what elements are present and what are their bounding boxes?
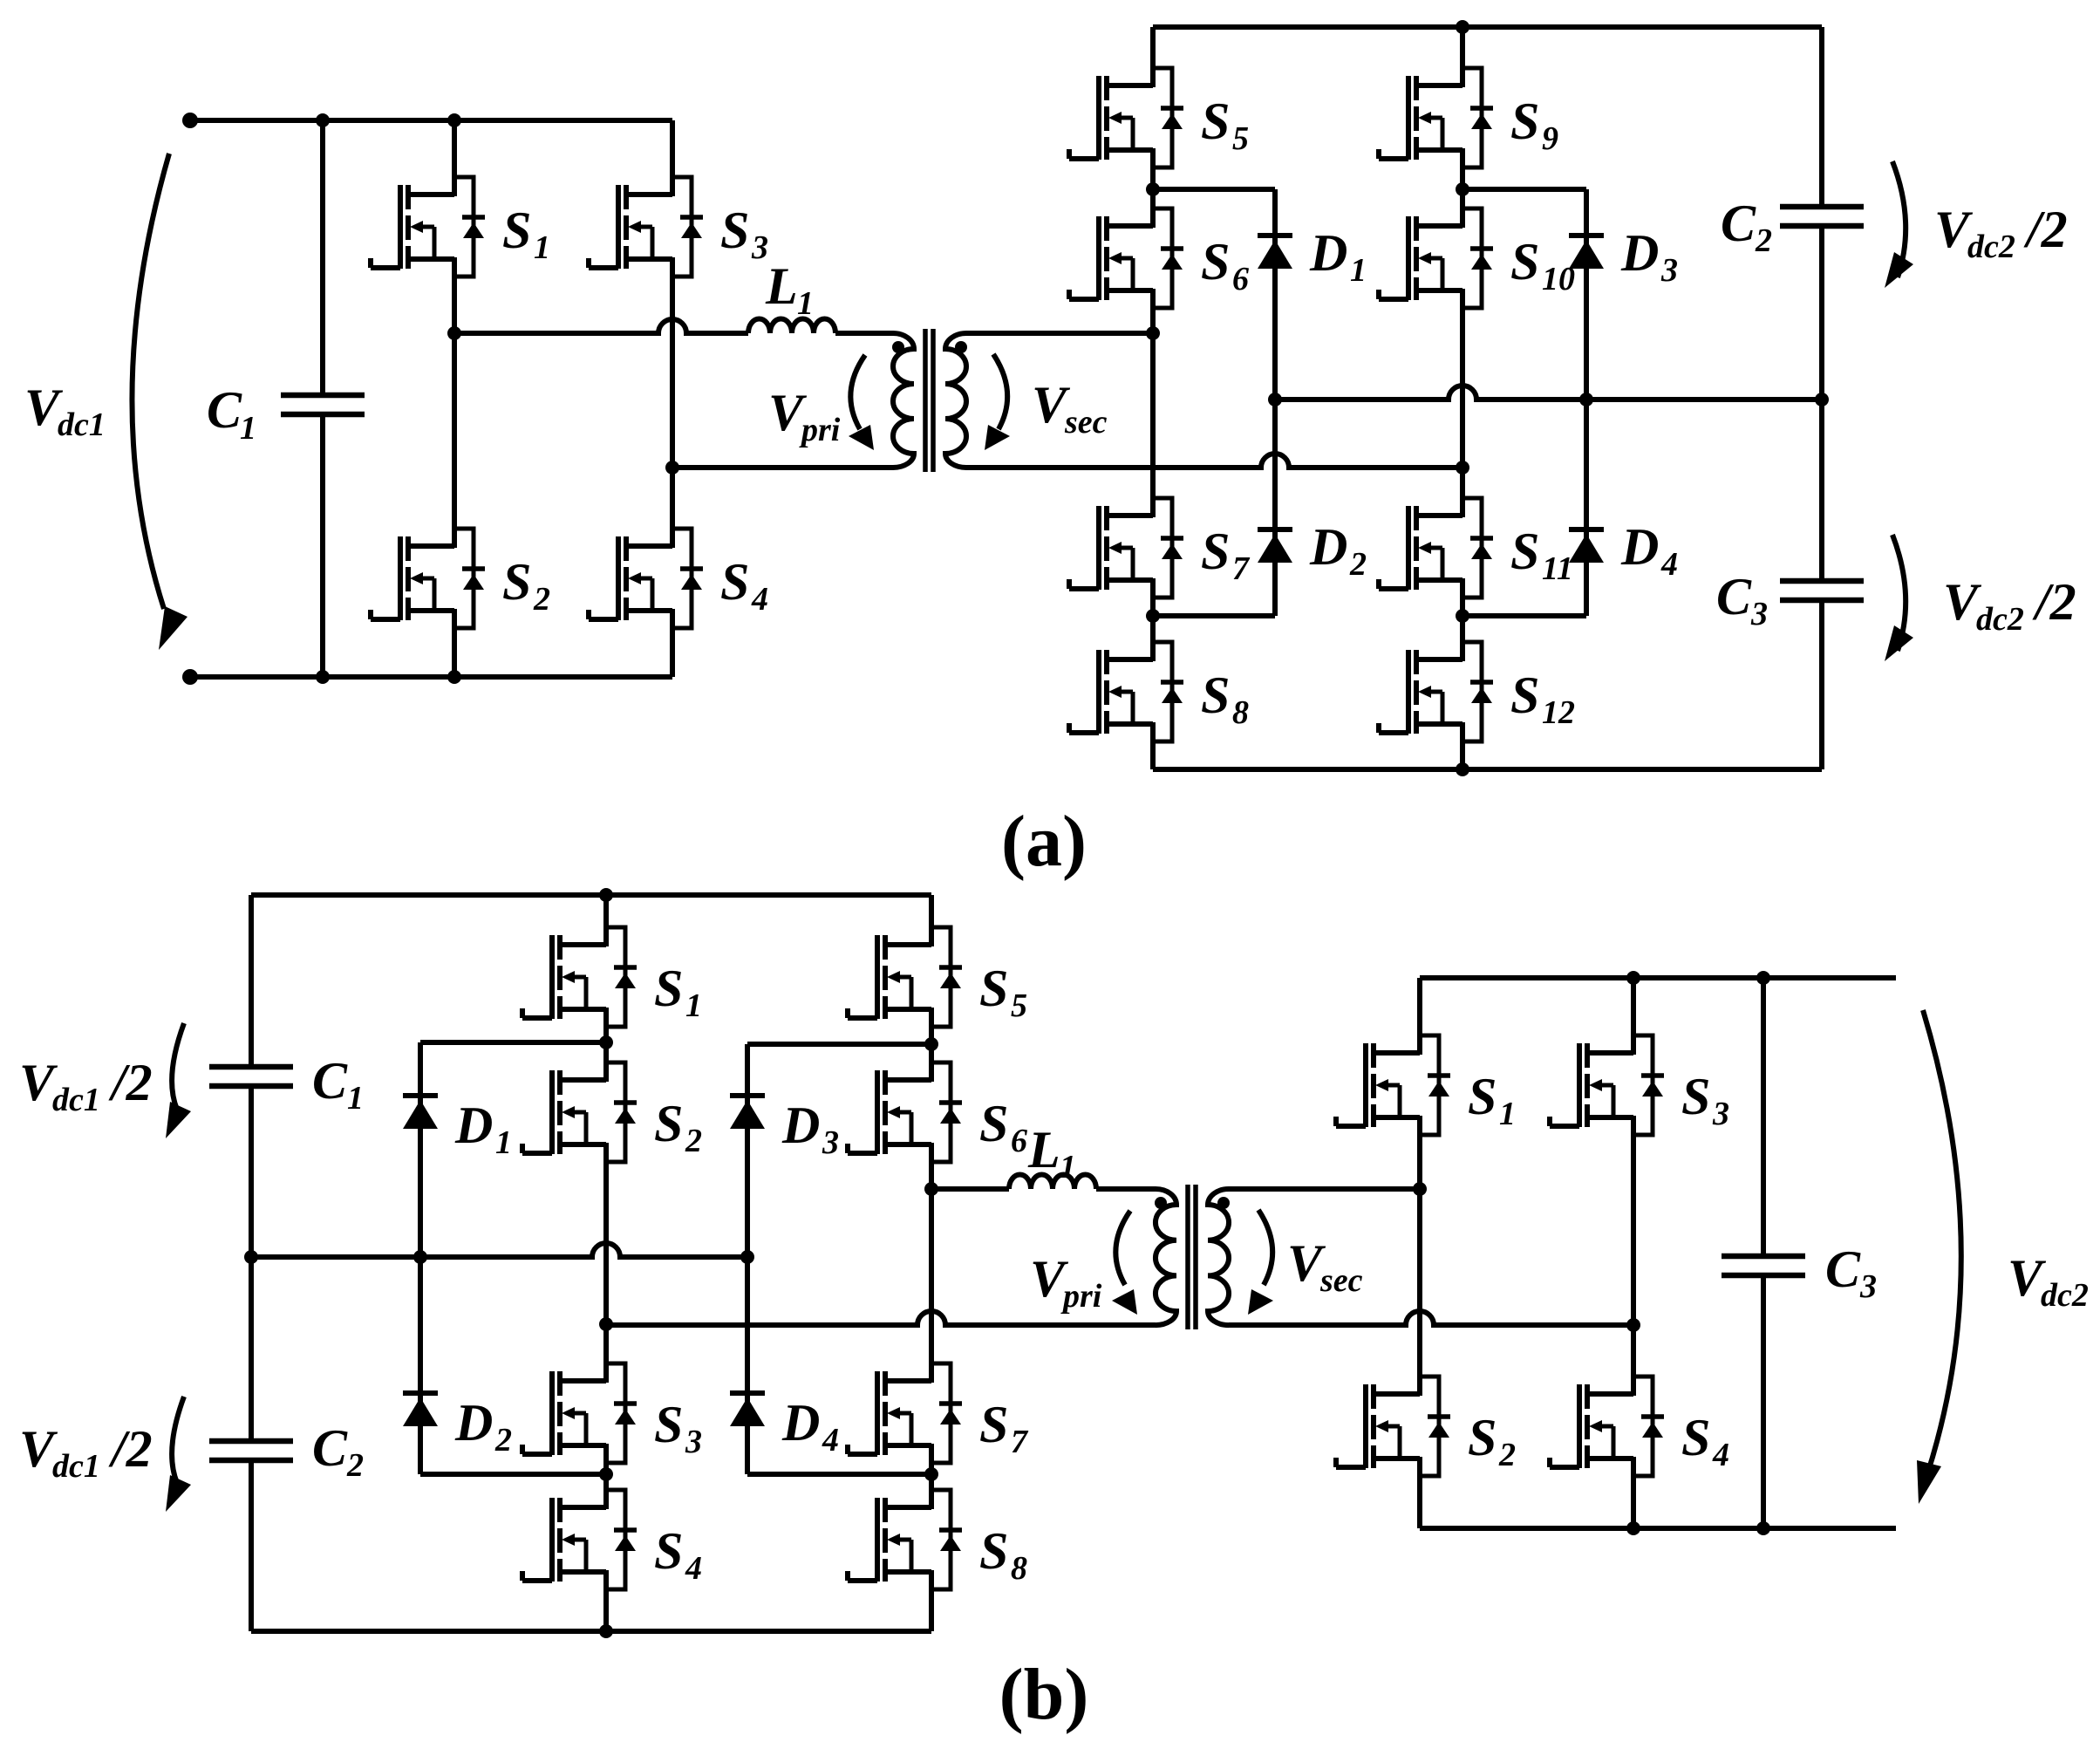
wire secondary top to bridge (b) — [1229, 1186, 1420, 1192]
svg-text:S: S — [1681, 1409, 1710, 1466]
svg-text:3: 3 — [1660, 252, 1678, 289]
svg-text:/2: /2 — [2032, 573, 2076, 631]
wire S8 source (a) — [1150, 741, 1156, 769]
svg-text:3: 3 — [822, 1124, 839, 1161]
svg-text:8: 8 — [1232, 694, 1249, 731]
wire S1-S2 junction (b) — [603, 1027, 609, 1062]
node secondary top junction (b) — [1413, 1182, 1427, 1196]
svg-text:12: 12 — [1542, 694, 1575, 731]
svg-text:L: L — [1027, 1121, 1060, 1179]
svg-text:S: S — [1510, 233, 1539, 290]
svg-text:2: 2 — [1349, 546, 1367, 583]
wire node A to L1 with crossover hump (a) — [454, 319, 748, 333]
node leg A midpoint (a) — [1146, 326, 1160, 340]
svg-text:D: D — [454, 1394, 493, 1452]
svg-text:2: 2 — [494, 1422, 512, 1459]
wire S1 drain (b) — [603, 895, 609, 927]
svg-text:S: S — [654, 960, 683, 1017]
wire L1 node to inductor (b) — [931, 1186, 1009, 1192]
primary polarity dot (b) — [1155, 1197, 1167, 1209]
node top rail leg1 (b) — [599, 888, 613, 902]
wire S3 drain right (b) — [1631, 978, 1636, 1035]
svg-text:D: D — [454, 1097, 493, 1154]
wire C3 leads (a) — [1819, 400, 1824, 580]
svg-text:/2: /2 — [108, 1420, 153, 1478]
svg-text:sec: sec — [1064, 404, 1108, 441]
svg-text:1: 1 — [685, 987, 702, 1024]
voltage arrow Vsec (a) — [993, 354, 1007, 429]
svg-text:D: D — [781, 1394, 820, 1452]
svg-text:2: 2 — [533, 581, 550, 618]
svg-text:4: 4 — [685, 1550, 702, 1587]
svg-text:(a): (a) — [1001, 801, 1087, 882]
svg-text:C: C — [207, 381, 242, 439]
svg-text:D: D — [1309, 518, 1347, 576]
svg-text:D: D — [1620, 224, 1659, 282]
svg-text:dc2: dc2 — [2041, 1277, 2089, 1314]
voltage arrow Vpri (b) — [1115, 1211, 1130, 1285]
wire neutral mid rail with hump (b) — [251, 1243, 747, 1257]
wire S1 drain (a) — [452, 120, 457, 177]
wire secondary top to leg A (a) — [966, 331, 1153, 336]
wire D2 bottom jog (a) — [1153, 613, 1275, 618]
node bottom rail leg B (a) — [1456, 762, 1469, 776]
wire D1-D2 branch (b) — [418, 1042, 423, 1474]
node mid rail D1-D2 (b) — [413, 1250, 427, 1264]
node mid rail D3-D4 (b) — [740, 1250, 754, 1264]
svg-text:dc1: dc1 — [52, 1448, 100, 1485]
transistor S7 (b) — [848, 1363, 962, 1463]
svg-text:S: S — [1468, 1409, 1497, 1466]
node L1 junction (b) — [924, 1182, 938, 1196]
diode D4 (b) — [730, 1393, 765, 1426]
svg-text:S: S — [654, 1396, 683, 1453]
wire C2 leads (a) — [1819, 27, 1824, 207]
svg-text:D: D — [1309, 224, 1347, 282]
wire S5-S6 junction (a) — [1150, 167, 1156, 208]
node S3-S4 junction (b) — [599, 1467, 613, 1481]
node mid rail left (b) — [244, 1250, 258, 1264]
transistor S2 (b) — [522, 1062, 637, 1162]
svg-text:sec: sec — [1319, 1262, 1363, 1299]
svg-text:pri: pri — [799, 412, 841, 448]
svg-text:3: 3 — [1712, 1096, 1729, 1132]
svg-text:C: C — [1825, 1240, 1861, 1298]
svg-text:dc1: dc1 — [52, 1082, 100, 1118]
wire bottom rail (b) — [251, 1629, 931, 1634]
node S1 drain rail (a) — [447, 113, 461, 127]
transistor S2 right (b) — [1336, 1377, 1450, 1476]
svg-text:C: C — [1721, 195, 1756, 252]
svg-text:S: S — [654, 1522, 683, 1580]
voltage arrow Vdc2 (b) — [1923, 1010, 1961, 1474]
node S5-S6 junction (a) — [1146, 182, 1160, 196]
capacitor C2 (b) — [209, 1441, 293, 1460]
svg-text:/2: /2 — [2023, 201, 2068, 258]
node S9-S10 junction (a) — [1456, 182, 1469, 196]
transistor S1 right (b) — [1336, 1035, 1450, 1135]
wire S2 source to AC node (b) — [603, 1162, 609, 1363]
svg-text:1: 1 — [495, 1124, 512, 1161]
wire S6 source to midpoint (a) — [1150, 308, 1156, 333]
wire S5 drain (a) — [1150, 27, 1156, 68]
svg-text:4: 4 — [1660, 546, 1678, 583]
svg-text:S: S — [654, 1095, 683, 1152]
node C1 top (a) — [316, 113, 330, 127]
diode D3 (a) — [1569, 236, 1604, 269]
transistor S4 (b) — [522, 1490, 637, 1589]
terminal dot top-left (a) — [182, 113, 198, 128]
svg-text:S: S — [720, 553, 749, 611]
voltage arrow Vdc2/2 bottom (a) — [1892, 535, 1906, 651]
terminal dot bottom-left (a) — [182, 669, 198, 685]
transistor S3 right (b) — [1550, 1035, 1664, 1135]
secondary polarity dot (a) — [955, 341, 967, 353]
svg-text:S: S — [1468, 1068, 1497, 1125]
wire S3-S4 junction (b) — [603, 1463, 609, 1490]
wire S2 drain (a) — [452, 333, 457, 529]
svg-text:6: 6 — [1011, 1123, 1027, 1159]
transistor S5 (b) — [848, 927, 962, 1027]
node leg B midpoint (a) — [1456, 461, 1469, 475]
svg-text:9: 9 — [1542, 120, 1558, 157]
wire AC node to primary bottom with hump (b) — [606, 1311, 1156, 1325]
wire D3 top jog (a) — [1462, 187, 1586, 192]
diode D3 (b) — [730, 1096, 765, 1129]
node neutral D1-D2 (a) — [1268, 393, 1282, 407]
svg-text:4: 4 — [751, 581, 768, 618]
transistor S5 (a) — [1069, 68, 1183, 167]
svg-text:3: 3 — [685, 1424, 702, 1460]
svg-text:1: 1 — [797, 285, 814, 322]
capacitor C1 (a) — [281, 395, 365, 414]
wire S7-S8 junction (a) — [1150, 598, 1156, 642]
svg-text:S: S — [502, 202, 531, 259]
wire L1 node to S7 (b) — [929, 1189, 934, 1363]
svg-text:2: 2 — [1498, 1437, 1516, 1473]
wire secondary bottom to bridge with hump (b) — [1229, 1311, 1633, 1325]
diode D1 (a) — [1258, 236, 1292, 269]
primary polarity dot (a) — [892, 341, 904, 353]
svg-text:S: S — [1201, 92, 1230, 150]
transistor S10 (a) — [1379, 208, 1493, 308]
voltage arrow Vpri (a) — [850, 355, 865, 429]
svg-text:1: 1 — [1350, 252, 1367, 289]
wire S3 source to node B (a) — [670, 277, 675, 468]
transistor S8 (a) — [1069, 642, 1183, 741]
wire S6 source to L1 node (b) — [929, 1162, 934, 1189]
node neutral D3-D4 (a) — [1579, 393, 1593, 407]
transformer core (b) — [1185, 1185, 1190, 1329]
svg-text:L: L — [765, 257, 798, 315]
capacitor C1 (b) — [209, 1067, 293, 1086]
svg-text:S: S — [1510, 523, 1539, 580]
svg-text:2: 2 — [346, 1447, 364, 1484]
wire leg A midpoint to S7 (a) — [1150, 333, 1156, 498]
transistor S2 (a) — [371, 529, 485, 628]
wire S3-S4 leg right (b) — [1631, 1135, 1636, 1377]
voltage arrow Vdc2/2 top (a) — [1892, 161, 1906, 277]
transistor S3 (b) — [522, 1363, 637, 1463]
wire S1 source to node A (a) — [452, 277, 457, 333]
svg-text:/2: /2 — [108, 1054, 153, 1111]
wire top rail (b) — [251, 892, 931, 898]
svg-text:6: 6 — [1232, 261, 1249, 297]
svg-text:1: 1 — [1060, 1149, 1076, 1185]
transistor S3 (a) — [589, 177, 703, 277]
transformer primary winding (b) — [1156, 1189, 1176, 1325]
svg-text:(b): (b) — [999, 1654, 1089, 1735]
svg-text:C: C — [312, 1419, 348, 1477]
node S7-S8 junction (a) — [1146, 609, 1160, 623]
wire S7-S8 junction (b) — [929, 1463, 934, 1490]
diode D2 (a) — [1258, 529, 1292, 563]
wire D3-D4 branch (b) — [745, 1044, 750, 1474]
node bottom rail leg2 (b) — [1626, 1521, 1640, 1535]
node S7-S8 junction (b) — [924, 1467, 938, 1481]
svg-text:S: S — [1510, 92, 1539, 150]
capacitor C2 (a) — [1780, 207, 1864, 226]
wire S2 source right (b) — [1417, 1476, 1422, 1528]
svg-text:S: S — [720, 202, 749, 259]
transistor S4 right (b) — [1550, 1377, 1664, 1476]
svg-text:D: D — [1620, 518, 1659, 576]
svg-text:1: 1 — [1499, 1096, 1516, 1132]
svg-text:1: 1 — [347, 1080, 364, 1117]
wire S5-S6 junction (b) — [929, 1027, 934, 1062]
wire bottom rail right section (a) — [1153, 767, 1822, 772]
voltage arrow Vdc1/2 bottom (b) — [172, 1397, 184, 1483]
svg-text:1: 1 — [240, 410, 256, 447]
svg-text:S: S — [979, 1396, 1008, 1453]
wire S9 drain (a) — [1460, 27, 1465, 68]
wire D4 bottom jog (a) — [1462, 613, 1586, 618]
svg-text:C: C — [312, 1052, 348, 1110]
svg-text:7: 7 — [1011, 1424, 1029, 1460]
wire D1 branch (a) — [1272, 189, 1278, 400]
wire bottom rail left bridge (a) — [190, 674, 672, 680]
svg-text:S: S — [1510, 666, 1539, 724]
wire D1 top jog (b) — [420, 1040, 606, 1045]
capacitor C3 (b) — [1722, 1256, 1805, 1275]
wire neutral rail with hump (a) — [1275, 386, 1822, 400]
node C1 bottom (a) — [316, 670, 330, 684]
svg-text:11: 11 — [1542, 550, 1573, 587]
svg-text:S: S — [979, 1522, 1008, 1580]
capacitor C3 (a) — [1780, 581, 1864, 600]
node S11-S12 junction (a) — [1456, 609, 1469, 623]
node A S1-S2 junction (a) — [447, 326, 461, 340]
svg-text:3: 3 — [1859, 1268, 1877, 1305]
wire S12 source (a) — [1460, 741, 1465, 769]
wire left rail and C1 C2 leads (b) — [249, 895, 254, 1067]
wire S5 drain (b) — [929, 895, 934, 927]
node bottom rail C3 (b) — [1756, 1521, 1770, 1535]
wire S4 source (b) — [603, 1589, 609, 1631]
voltage arrow Vdc1 (a) — [132, 154, 169, 609]
transistor S1 (b) — [522, 927, 637, 1027]
transformer primary winding (a) — [893, 333, 914, 468]
node neutral C2-C3 (a) — [1815, 393, 1829, 407]
wire D4 branch (a) — [1584, 400, 1589, 616]
inductor L1 (a) — [748, 319, 835, 334]
svg-text:7: 7 — [1232, 550, 1251, 587]
svg-text:2: 2 — [685, 1123, 702, 1159]
node S2 source rail (a) — [447, 670, 461, 684]
svg-text:4: 4 — [822, 1422, 839, 1459]
node top rail C3 (b) — [1756, 971, 1770, 985]
wire top rail right bridge (b) — [1420, 975, 1896, 980]
node S5-S6 junction (b) — [924, 1037, 938, 1051]
transistor S4 (a) — [589, 529, 703, 628]
wire S9-S10 junction (a) — [1460, 167, 1465, 208]
wire bottom rail right bridge (b) — [1420, 1526, 1896, 1531]
svg-text:1: 1 — [534, 229, 550, 266]
node secondary bottom junction (b) — [1626, 1318, 1640, 1332]
wire D4 bottom jog (b) — [747, 1472, 931, 1477]
svg-text:10: 10 — [1542, 261, 1575, 297]
node bottom rail leg1 (b) — [599, 1624, 613, 1638]
node B S3-S4 junction (a) — [665, 461, 679, 475]
svg-text:8: 8 — [1011, 1550, 1027, 1587]
wire S4 source right (b) — [1631, 1476, 1636, 1528]
svg-text:S: S — [1201, 666, 1230, 724]
transistor S12 (a) — [1379, 642, 1493, 741]
svg-text:S: S — [502, 553, 531, 611]
node top rail leg2 (b) — [1626, 971, 1640, 985]
voltage arrow Vsec (b) — [1258, 1210, 1272, 1285]
wire top rail right section (a) — [1153, 24, 1822, 30]
transistor S11 (a) — [1379, 498, 1493, 598]
wire secondary bottom to leg B with hump (a) — [966, 454, 1462, 468]
wire S4 source (a) — [670, 628, 675, 677]
wire S3 drain (a) — [670, 120, 675, 177]
svg-text:S: S — [1681, 1068, 1710, 1125]
svg-text:pri: pri — [1060, 1278, 1102, 1315]
node leg1 AC output (b) — [599, 1317, 613, 1331]
wire C3 leads (b) — [1761, 978, 1766, 1256]
svg-text:5: 5 — [1011, 987, 1027, 1024]
wire D1 top jog (a) — [1153, 187, 1275, 192]
transistor S1 (a) — [371, 177, 485, 277]
wire node B to primary bottom (a) — [672, 465, 893, 470]
diode D4 (a) — [1569, 529, 1604, 563]
svg-text:S: S — [1201, 233, 1230, 290]
wire D3 top jog (b) — [747, 1042, 931, 1047]
diode D2 (b) — [403, 1393, 438, 1426]
svg-text:dc2: dc2 — [1967, 229, 2015, 265]
transformer secondary winding (b) — [1208, 1189, 1229, 1325]
inductor L1 (b) — [1009, 1175, 1096, 1190]
wire S11-S12 junction (a) — [1460, 598, 1465, 642]
diode D1 (b) — [403, 1096, 438, 1129]
wire D2 branch (a) — [1272, 400, 1278, 616]
transformer core (a) — [923, 329, 928, 472]
wire S4 drain (a) — [670, 468, 675, 529]
transistor S7 (a) — [1069, 498, 1183, 598]
svg-text:5: 5 — [1232, 120, 1249, 157]
svg-text:dc2: dc2 — [1976, 601, 2024, 638]
svg-text:S: S — [979, 1095, 1008, 1152]
wire top rail left bridge (a) — [190, 118, 672, 123]
wire S10 source to leg B midpoint (a) — [1460, 308, 1465, 498]
svg-text:4: 4 — [1712, 1437, 1729, 1473]
transistor S6 (a) — [1069, 208, 1183, 308]
wire D3 branch (a) — [1584, 189, 1589, 400]
node top rail leg B (a) — [1456, 20, 1469, 34]
voltage arrow Vdc1/2 top (b) — [172, 1023, 184, 1110]
wire L1 to primary (b) — [1096, 1186, 1156, 1192]
svg-text:C: C — [1716, 568, 1752, 625]
svg-text:dc1: dc1 — [58, 407, 106, 443]
wire S1 drain right (b) — [1417, 978, 1422, 1035]
svg-text:3: 3 — [1750, 596, 1768, 632]
transistor S9 (a) — [1379, 68, 1493, 167]
secondary polarity dot (b) — [1217, 1197, 1230, 1209]
transistor S6 (b) — [848, 1062, 962, 1162]
svg-text:S: S — [979, 960, 1008, 1017]
svg-text:2: 2 — [1755, 222, 1772, 259]
wire C1 leads (a) — [320, 120, 325, 395]
node S1-S2 junction (b) — [599, 1035, 613, 1049]
wire S2 source (a) — [452, 628, 457, 677]
svg-text:D: D — [781, 1097, 820, 1154]
wire L1 to primary (a) — [835, 331, 893, 336]
transistor S8 (b) — [848, 1490, 962, 1589]
transformer secondary winding (a) — [945, 333, 966, 468]
wire S8 source (b) — [929, 1589, 934, 1631]
wire D2 bottom jog (b) — [420, 1472, 606, 1477]
svg-text:S: S — [1201, 523, 1230, 580]
wire S1-S2 leg right (b) — [1417, 1135, 1422, 1377]
